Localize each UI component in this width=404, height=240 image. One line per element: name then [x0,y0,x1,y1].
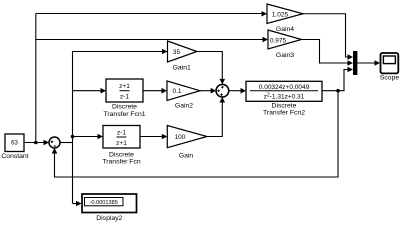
wire top to Gain4 [36,11,267,17]
wire Gain4 to mux (top input) [303,14,353,60]
gain Gain4 (1.025) [267,4,303,33]
wire riser to Discrete Transfer Fcn1 [73,88,107,94]
junction dot C [336,89,340,93]
svg-text:Gain3: Gain3 [276,52,294,59]
discrete transfer fcn1 block [103,79,145,118]
svg-text:z+1: z+1 [116,140,127,147]
sum block Sum2 [216,84,229,97]
wire DTF1 to Gain2 [143,88,167,94]
svg-text:Constant: Constant [1,153,28,160]
svg-text:0.00324z+0.0049: 0.00324z+0.0049 [259,84,310,91]
wire to Gain3 [36,37,268,43]
gain Gain1 (35) [168,41,198,72]
svg-text:Gain4: Gain4 [276,26,294,33]
svg-text:0.1: 0.1 [172,88,181,95]
svg-text:z-1: z-1 [120,94,129,101]
svg-text:z2-1.31z+0.31: z2-1.31z+0.31 [264,93,305,101]
svg-text:z+1: z+1 [119,83,130,90]
wire constant to sum [24,140,49,146]
wire DTF to Gain [140,134,167,140]
svg-text:Transfer Fcn1: Transfer Fcn1 [103,111,145,118]
svg-text:1.025: 1.025 [272,11,289,18]
gain Gain3 (0.975) [268,30,302,59]
wire mux to scope [357,60,380,66]
wire sum1 output to riser [60,142,73,144]
mux [353,51,357,75]
scope block [380,53,399,82]
svg-text:Scope: Scope [380,75,399,82]
wire sum2 to DTF2 [229,88,246,94]
discrete transfer fcn2 block [246,81,322,116]
constant block (63) [1,134,28,160]
svg-text:Display2: Display2 [96,215,122,222]
svg-text:Discrete: Discrete [112,104,137,111]
svg-text:Gain2: Gain2 [175,103,193,110]
wire main riser [72,52,74,204]
svg-text:Gain1: Gain1 [173,65,191,72]
wire feedback from DTF2 to sum1 [52,91,338,177]
svg-text:Discrete: Discrete [272,102,297,109]
wire Gain2 to sum2 [200,88,216,94]
svg-text:35: 35 [173,49,181,56]
svg-text:-0.0001385: -0.0001385 [90,200,118,206]
svg-text:Gain: Gain [179,153,194,160]
junction dot B [71,135,75,139]
gain Gain (100) [167,126,207,160]
wire riser to Discrete Transfer Fcn [73,134,104,140]
gain Gain2 (0.1) [167,81,200,110]
svg-text:100: 100 [175,134,186,141]
wire DTF2 output to mux (bottom input) [322,67,353,91]
wire Gain to sum2 (up) [207,97,225,137]
wire riser from constant branch to top [35,14,37,143]
wire riser to Gain1 [73,49,168,55]
junction dot A [34,141,38,145]
svg-text:Transfer Fcn2: Transfer Fcn2 [263,110,305,117]
svg-text:Transfer Fcn: Transfer Fcn [102,159,140,166]
discrete transfer fcn block (z-1 / z+1) [102,126,140,166]
display2 block [82,194,137,222]
sum block Sum1 [49,137,60,148]
wire riser down to Display2 [73,201,82,207]
svg-text:z-1: z-1 [117,129,126,136]
svg-text:Discrete: Discrete [109,151,134,158]
svg-text:63: 63 [11,141,18,147]
wire Gain1 to sum2 (down) [197,52,225,85]
wire Gain3 to mux (middle input) [302,40,354,66]
svg-text:0.975: 0.975 [270,37,287,44]
